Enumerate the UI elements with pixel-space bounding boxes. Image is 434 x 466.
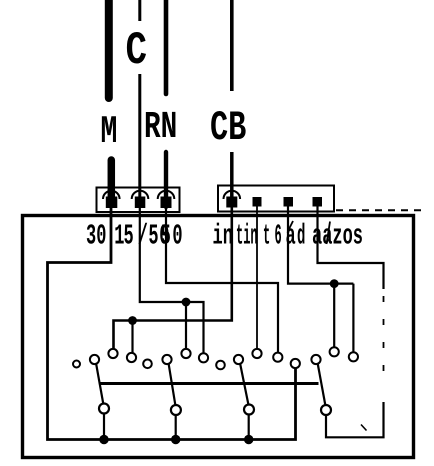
junction node A [182,298,191,307]
svg-text:t: t [263,220,270,253]
switch S2 pole stub [175,410,177,440]
wire right side lower section to switch S4 [326,402,384,437]
contact circle c7 [181,349,190,358]
wire from CB terminal with bar to contact [114,205,232,354]
svg-text:C: C [126,26,148,77]
J2 pin 3 [284,197,294,207]
switch S1 pole circle [99,404,109,414]
J1 pin 2 (C) [135,197,146,209]
wire from J2 pin3 with node C [288,205,353,284]
J1 socket arc 1 [103,191,120,199]
wire C lower segment [138,74,141,207]
wire from J2 pin4 around right side to switch S4 [318,205,384,289]
J2 socket arc 1 [224,191,241,199]
J2 pin 4 [313,197,323,207]
contact circle c1 [73,361,80,368]
contact circle c14 (S4 lever top) [311,355,320,364]
J2 pin 1 (CB) [226,197,237,208]
wire end branch down to contact [352,284,354,357]
junction node C [330,279,339,288]
svg-text:CB: CB [210,105,246,152]
svg-text:RN: RN [144,105,177,148]
contact circle c6 (S2 lever top) [162,355,171,364]
svg-text:6: 6 [275,220,282,253]
text artifact stroke over glyph [327,222,331,245]
wire node A down to contact [185,302,187,354]
switch S3 pole stub [248,410,250,440]
wire right side faint dashed section [383,296,385,378]
contact circle c10 (S3 lever top) [234,355,243,364]
wire C top segment [138,0,141,21]
wire CB lower segment [230,152,234,207]
text artifact accent [289,221,294,230]
wire from RN terminal to contact [166,205,278,357]
enclosure outer box [23,216,414,458]
scan artifact dashes [336,209,421,211]
contact circle c5 [143,360,152,369]
wire M lower segment [108,160,116,200]
J1 pin 1 (M) [106,197,118,209]
switch S3 pole circle [244,405,254,415]
wire from C terminal to node A [140,205,186,302]
contact circle c15 [330,347,339,356]
contact circle c4 [127,353,136,362]
svg-text:30: 30 [86,220,106,253]
linkage bar [100,382,319,385]
wire CB top segment [230,0,234,91]
wire M top segment [105,0,113,98]
switch S4 pole circle [321,405,331,415]
svg-text:5: 5 [161,220,171,253]
contact circle c16 [349,352,358,361]
svg-text:in: in [213,220,233,253]
connector J1 box [97,188,180,213]
wire RN lower segment [164,152,168,207]
contact circle c3 [108,349,117,358]
svg-text:5: 5 [124,220,134,253]
svg-text:5: 5 [148,220,158,253]
wire from J2 pin2 to contact [256,205,258,354]
wire node B down to contact [131,321,133,359]
switch S4 lever [318,363,326,407]
svg-text:tin: tin [236,220,258,253]
switch S3 lever [240,363,249,405]
contact circle c2 (S1 lever top) [90,355,99,364]
connector J2 box [218,186,334,212]
junction bus dot 3 [244,435,253,444]
contact circle c8 [199,353,208,362]
switch S1 lever [96,363,104,405]
switch S1 pole stub [103,410,105,440]
wire RN top segment [164,0,169,94]
scan artifact tick [361,425,367,431]
J2 pin 2 [253,197,262,207]
contact circle c11 [252,349,261,358]
junction bus dot 1 [99,435,108,444]
junction node B [128,316,137,325]
J1 socket arc 2 [132,191,149,199]
J1 pin 3 (RN) [161,197,172,209]
wire node C down to contact [333,284,335,352]
svg-text:aazos: aazos [312,220,363,253]
contact circle c12 [273,353,282,362]
junction bus dot 2 [171,435,180,444]
contact circle c9 [216,361,225,370]
svg-text:/: / [138,220,148,253]
J1 socket arc 3 [158,191,175,199]
switch S2 pole circle [171,405,181,415]
svg-text:M: M [101,111,118,155]
wire from M terminal routed left and along bottom bus [48,205,296,440]
wire node A right branch down to contact [186,302,204,358]
svg-text:0: 0 [172,220,182,253]
switch S2 lever [169,363,176,406]
contact circle c13 [291,359,300,368]
svg-text:d: d [297,219,305,252]
